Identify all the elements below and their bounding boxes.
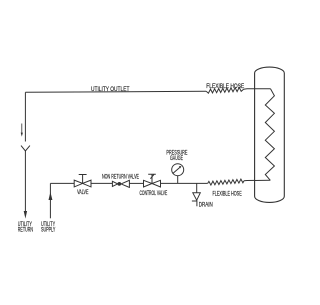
svg-text:RETURN: RETURN: [18, 227, 33, 234]
pressure gauge needle: [173, 167, 181, 174]
coil zigzag inside vessel: [265, 89, 274, 181]
wire bottom run hose to control valve: [161, 182, 208, 184]
wire hose to vessel inlet: [244, 88, 271, 90]
svg-text:VALVE: VALVE: [77, 189, 88, 196]
flexible hose bottom zigzag: [208, 179, 244, 185]
drain funnel: [193, 193, 201, 200]
control valve bowtie: [144, 180, 161, 187]
svg-text:GAUGE: GAUGE: [170, 155, 183, 162]
svg-text:DRAIN: DRAIN: [199, 201, 213, 208]
svg-text:FLEXIBLE HOSE: FLEXIBLE HOSE: [213, 190, 242, 197]
svg-text:NON RETURN VALVE: NON RETURN VALVE: [102, 173, 139, 180]
svg-text:UTILITY OUTLET: UTILITY OUTLET: [91, 86, 129, 93]
vessel shell: [255, 67, 285, 202]
wire valve to supply corner: [50, 182, 74, 184]
valve V1 stem and handle: [79, 175, 87, 184]
pressure gauge circle: [172, 164, 184, 176]
control valve actuator stem: [148, 174, 156, 183]
check valve ball: [117, 182, 121, 186]
svg-text:CONTROL VALVE: CONTROL VALVE: [140, 190, 168, 197]
utility return arrowhead: [24, 211, 27, 219]
flexible hose top zigzag: [206, 87, 243, 93]
hose connection Y symbol: [21, 146, 30, 151]
valve V1 bowtie: [74, 180, 91, 187]
wire control valve to check valve: [129, 182, 143, 184]
wire utility outlet top run: [25, 91, 206, 92]
wire check valve to valve: [91, 182, 112, 184]
flow arrow on outlet drop: [20, 124, 23, 134]
svg-text:FLEXIBLE HOSE: FLEXIBLE HOSE: [206, 83, 244, 90]
wire vessel outlet to hose: [244, 179, 270, 182]
wire utility return drop: [24, 151, 26, 213]
drain stem and tick: [192, 200, 197, 206]
check valve body: [112, 180, 129, 187]
svg-text:SUPPLY: SUPPLY: [41, 227, 55, 234]
pressure gauge stem: [177, 176, 179, 184]
drain branch wire: [196, 183, 198, 192]
wire utility outlet left drop: [24, 92, 26, 141]
utility supply arrowhead: [49, 192, 53, 200]
wire utility supply riser: [49, 183, 51, 218]
